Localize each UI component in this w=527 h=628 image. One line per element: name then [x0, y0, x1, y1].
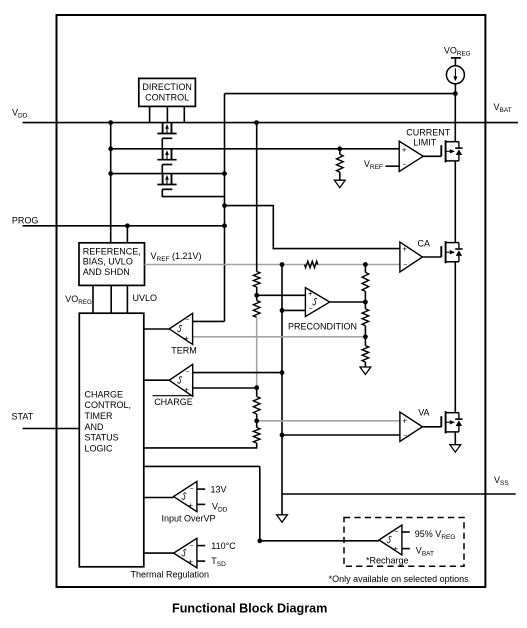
- svg-text:LOGIC: LOGIC: [85, 444, 114, 454]
- svg-text:+: +: [188, 557, 193, 566]
- svg-text:−: −: [189, 486, 193, 493]
- svg-text:AND SHDN: AND SHDN: [83, 267, 130, 277]
- svg-text:CURRENT: CURRENT: [406, 128, 451, 138]
- svg-text:BIAS, UVLO: BIAS, UVLO: [83, 257, 133, 267]
- svg-text:TIMER: TIMER: [85, 411, 113, 421]
- svg-text:CA: CA: [418, 239, 431, 249]
- svg-text:−: −: [403, 262, 407, 269]
- svg-text:−: −: [402, 162, 406, 169]
- svg-text:*Only available on selected op: *Only available on selected options: [329, 574, 470, 584]
- svg-text:+: +: [184, 334, 189, 343]
- svg-text:REFERENCE,: REFERENCE,: [83, 246, 141, 256]
- svg-text:TERM: TERM: [171, 346, 197, 356]
- svg-text:−: −: [185, 369, 189, 376]
- svg-text:CHARGE: CHARGE: [85, 389, 124, 399]
- svg-text:Thermal Regulation: Thermal Regulation: [131, 570, 210, 580]
- svg-text:STAT: STAT: [12, 411, 34, 421]
- svg-text:DIRECTION: DIRECTION: [142, 82, 192, 92]
- svg-text:+: +: [402, 145, 407, 154]
- svg-text:−: −: [185, 317, 189, 324]
- svg-text:VA: VA: [418, 408, 429, 418]
- svg-text:CONTROL: CONTROL: [145, 93, 189, 103]
- svg-text:−: −: [189, 542, 193, 549]
- svg-text:AND: AND: [85, 422, 105, 432]
- svg-text:−: −: [403, 432, 407, 439]
- svg-text:+: +: [393, 545, 398, 554]
- svg-text:+: +: [308, 289, 313, 298]
- svg-text:+: +: [184, 385, 189, 394]
- svg-text:+: +: [402, 244, 407, 253]
- svg-text:*Recharge: *Recharge: [366, 555, 409, 565]
- svg-text:110°C: 110°C: [211, 541, 236, 551]
- svg-text:CONTROL,: CONTROL,: [85, 400, 132, 410]
- svg-text:CHARGE: CHARGE: [154, 397, 193, 407]
- svg-text:PRECONDITION: PRECONDITION: [288, 321, 357, 331]
- svg-text:Input OverVP: Input OverVP: [162, 513, 216, 523]
- svg-text:STATUS: STATUS: [85, 433, 119, 443]
- svg-text:13V: 13V: [211, 484, 227, 494]
- svg-text:LIMIT: LIMIT: [413, 138, 437, 148]
- svg-text:UVLO: UVLO: [133, 293, 158, 303]
- svg-text:PROG: PROG: [12, 215, 39, 225]
- svg-text:+: +: [188, 501, 193, 510]
- svg-text:−: −: [394, 529, 398, 536]
- svg-text:+: +: [402, 416, 407, 425]
- svg-text:−: −: [309, 306, 313, 313]
- svg-text:Functional Block Diagram: Functional Block Diagram: [172, 602, 327, 616]
